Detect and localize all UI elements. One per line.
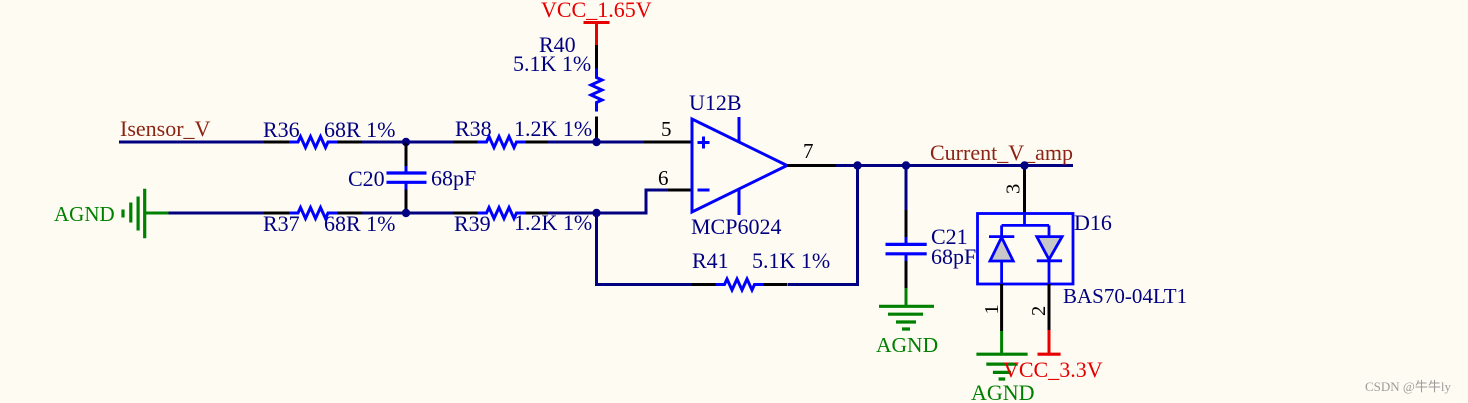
wire R38 to node [548,141,597,144]
wire R39 to node [548,212,597,215]
svg-text:68R 1%: 68R 1% [324,117,396,142]
wire R37 to node [362,212,406,215]
svg-text:R37: R37 [263,211,300,236]
resistor R38 [453,116,592,148]
svg-text:AGND: AGND [971,380,1035,403]
op-amp U12B [689,90,787,239]
wire feedback loop [788,166,858,285]
pin 6 of U12B [658,166,692,190]
pin 5 of U12B [644,117,692,142]
svg-text:5.1K 1%: 5.1K 1% [752,248,830,273]
svg-text:5: 5 [661,117,672,141]
net label Isensor_V [120,116,211,141]
svg-text:R39: R39 [454,211,491,236]
svg-text:5.1K 1%: 5.1K 1% [513,51,591,76]
resistor R36 [263,117,396,148]
node junction bottom of C20 [402,209,410,217]
svg-text:BAS70-04LT1: BAS70-04LT1 [1063,284,1187,308]
svg-text:R38: R38 [455,116,492,141]
diode D16 body [978,210,1188,308]
pin 7 of U12B [787,139,836,166]
svg-text:AGND: AGND [54,202,115,226]
capacitor C21 [886,166,977,289]
wire node to R39 [406,212,453,215]
wire AGND to R37 [169,212,265,215]
capacitor C20 [348,142,476,213]
wire VCC_1.65V to R40 [595,45,598,69]
svg-text:R36: R36 [263,117,300,142]
pin 2 of D16 [1028,284,1050,330]
ground AGND left [54,189,169,239]
svg-text:1: 1 [981,304,1003,314]
svg-text:U12B: U12B [689,90,742,115]
node junction R40/R38/pin5 [592,138,600,146]
wire feedback left to inverting node [597,213,693,285]
svg-text:VCC_3.3V: VCC_3.3V [1003,357,1103,382]
power symbol VCC_1.65V [541,0,652,45]
svg-text:68pF: 68pF [431,166,476,191]
svg-text:1.2K 1%: 1.2K 1% [514,116,592,141]
svg-text:C20: C20 [348,166,385,191]
wire node to pin 5 [597,141,644,144]
node junction D16 tap [1020,161,1028,169]
resistor R37 [263,208,396,237]
watermark [1365,379,1452,394]
svg-text:7: 7 [803,139,814,163]
ground AGND under C21 [876,288,938,357]
svg-text:MCP6024: MCP6024 [691,214,781,239]
pin 1 of D16 [981,284,1003,331]
wire node to pin 6 step [597,190,669,213]
wire Isensor_V to R36 [119,141,264,144]
svg-text:3: 3 [1003,184,1025,194]
wire output row [836,164,1073,167]
wire node to R38 [406,141,453,144]
svg-text:2: 2 [1028,306,1050,316]
svg-text:68R 1%: 68R 1% [324,211,396,236]
svg-text:6: 6 [658,166,669,190]
ground AGND pin1 [971,331,1035,403]
net label Current_V_amp [930,140,1073,165]
svg-text:R41: R41 [692,248,729,273]
node junction C21 tap [902,161,910,169]
node junction feedback/pin6 [592,209,600,217]
node junction feedback tap [853,161,861,169]
svg-text:Current_V_amp: Current_V_amp [930,140,1073,165]
svg-text:CSDN @牛牛ly: CSDN @牛牛ly [1365,379,1452,394]
power symbol VCC_3.3V [1003,330,1103,382]
svg-text:AGND: AGND [876,333,938,357]
resistor R41 [692,248,830,290]
svg-text:D16: D16 [1074,210,1112,235]
svg-text:68pF: 68pF [931,244,976,269]
resistor R39 [453,208,592,237]
node junction top of C20 [402,138,410,146]
pin 3 of D16 [1003,166,1025,214]
svg-text:VCC_1.65V: VCC_1.65V [541,0,652,22]
wire R36 to node [362,141,406,144]
resistor R40 [513,32,602,139]
svg-text:Isensor_V: Isensor_V [120,116,211,141]
